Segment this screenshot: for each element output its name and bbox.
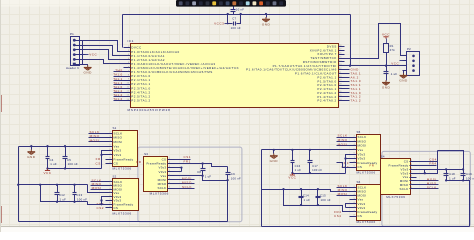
wire: [86, 65, 88, 66]
svg-text:100 nF: 100 nF: [321, 198, 331, 202]
wire: [345, 65, 407, 67]
ground: [262, 17, 270, 22]
wire: [417, 151, 438, 174]
svg-text:MLX75306: MLX75306: [357, 220, 376, 224]
junction: [273, 149, 275, 151]
svg-text:FR4: FR4: [429, 161, 436, 165]
wire: [424, 170, 426, 174]
svg-text:GND: GND: [399, 79, 408, 83]
capacitor C8: [386, 71, 388, 73]
svg-text:MLX75306: MLX75306: [113, 166, 132, 170]
svg-text:47k: 47k: [390, 48, 396, 52]
svg-text:VCC: VCC: [391, 62, 399, 66]
wire: [403, 71, 405, 74]
ground: [84, 65, 92, 70]
svg-text:C18: C18: [449, 172, 455, 176]
net labels S3: [175, 179, 195, 181]
wire: [284, 190, 350, 212]
junction: [201, 162, 203, 164]
svg-text:Header 6: Header 6: [66, 66, 79, 70]
wire: [175, 163, 203, 165]
svg-text:C7: C7: [232, 16, 236, 20]
svg-text:MOSI: MOSI: [338, 142, 348, 146]
connector P1 pins: [73, 39, 76, 42]
svg-text:MLX75306: MLX75306: [386, 195, 405, 199]
svg-text:1 uF: 1 uF: [295, 168, 302, 172]
wire: [417, 161, 438, 163]
wire: [175, 159, 191, 161]
wire: [337, 163, 350, 168]
wire: [228, 15, 233, 24]
wire: [88, 185, 106, 193]
wire: [345, 24, 407, 59]
svg-text:MOSI: MOSI: [92, 186, 102, 190]
wire: [86, 41, 124, 52]
svg-text:MOSI: MOSI: [90, 139, 100, 143]
wire: [86, 60, 124, 64]
resistor R1: [384, 44, 389, 53]
svg-text:S5: S5: [357, 130, 361, 134]
toolbar overlay: [176, 0, 286, 7]
wire: [262, 190, 350, 192]
wire: [88, 202, 106, 205]
wire: [266, 15, 268, 18]
wire: [102, 154, 106, 156]
junction: [385, 65, 387, 67]
svg-text:CS: CS: [114, 206, 119, 210]
wire: [350, 15, 352, 66]
IC S5 (MLX75306): [357, 135, 381, 171]
svg-text:CS: CS: [358, 165, 363, 169]
IC S2 (MLX75306): [113, 179, 139, 211]
capacitor C7: [233, 22, 235, 26]
svg-text:MSP430G2553IPW28: MSP430G2553IPW28: [128, 108, 171, 112]
connector P1 body: [71, 37, 80, 66]
svg-text:P2.5/TA1.2: P2.5/TA1.2: [131, 98, 150, 102]
wire: [19, 146, 106, 148]
junction: [265, 13, 267, 15]
svg-text:1 uF: 1 uF: [304, 198, 311, 202]
svg-text:SCLK: SCLK: [400, 187, 409, 191]
svg-text:IC1: IC1: [128, 39, 134, 43]
svg-text:VCC: VCC: [288, 176, 296, 180]
junction: [445, 168, 447, 170]
wire: [417, 165, 437, 167]
net labels MCU left: [114, 71, 124, 73]
capacitor C9: [227, 167, 229, 173]
wire: [273, 150, 275, 154]
svg-text:P1: P1: [70, 32, 74, 36]
svg-text:S3: S3: [144, 152, 148, 156]
svg-text:P2: P2: [407, 47, 411, 51]
wire: [386, 76, 388, 81]
wire: [293, 173, 346, 175]
MCU left pins: [124, 47, 131, 49]
wire: [18, 147, 20, 222]
svg-text:100 nF: 100 nF: [77, 197, 87, 201]
svg-text:S2: S2: [113, 174, 117, 178]
svg-text:VCC3: VCC3: [214, 21, 224, 25]
capacitor C14: [301, 190, 303, 197]
capacitor C19: [463, 170, 465, 175]
svg-text:VCC: VCC: [89, 53, 97, 57]
connector P2 body: [407, 52, 420, 76]
svg-text:MOSI: MOSI: [338, 192, 348, 196]
svg-text:GND: GND: [382, 86, 391, 90]
junction: [100, 154, 102, 156]
junction: [282, 188, 284, 190]
junction: [344, 157, 346, 159]
wire: [122, 15, 124, 48]
svg-text:VCC: VCC: [43, 171, 51, 175]
svg-text:S4: S4: [381, 155, 385, 159]
wire: [346, 207, 350, 209]
junction: [291, 149, 293, 151]
junction: [445, 179, 447, 181]
svg-text:C19: C19: [466, 172, 472, 176]
svg-text:1 uF: 1 uF: [60, 197, 67, 201]
wire: [447, 181, 470, 227]
svg-text:MLX75306: MLX75306: [150, 192, 169, 196]
wire: [203, 164, 228, 167]
svg-text:S1: S1: [113, 126, 117, 130]
wire: [386, 53, 388, 71]
ground: [382, 80, 390, 85]
wire: [19, 184, 88, 186]
capacitor C15: [317, 190, 319, 197]
svg-text:P2.4/TA0.2: P2.4/TA0.2: [317, 99, 336, 103]
svg-text:CS4: CS4: [334, 214, 342, 218]
wire: [262, 226, 470, 228]
svg-text:FR: FR: [136, 160, 141, 164]
wire: [261, 150, 263, 227]
wire: [346, 155, 350, 174]
svg-text:CS2: CS2: [97, 206, 105, 210]
junction: [349, 65, 351, 67]
svg-text:C8: C8: [197, 170, 201, 174]
wire: [346, 158, 350, 160]
wire: [48, 168, 102, 170]
svg-text:S6: S6: [357, 180, 361, 184]
junction: [240, 13, 242, 15]
svg-text:SCLK: SCLK: [427, 185, 437, 189]
capacitor C8: [202, 164, 204, 169]
wire: [237, 15, 241, 24]
capacitor C18: [446, 170, 448, 175]
ground: [400, 73, 408, 78]
ground: [270, 154, 278, 159]
junction: [17, 184, 19, 186]
svg-text:CS: CS: [114, 162, 119, 166]
net labels S4: [417, 180, 439, 182]
junction: [226, 179, 228, 181]
svg-text:C13: C13: [77, 193, 83, 197]
svg-text:100 nF: 100 nF: [231, 176, 241, 180]
wire: [123, 14, 351, 16]
svg-text:GND: GND: [270, 159, 279, 163]
svg-text:C12: C12: [59, 193, 65, 197]
net labels MCU right: [345, 69, 350, 71]
wire: [86, 50, 124, 60]
power port VCC: [385, 37, 387, 39]
wire: [417, 169, 464, 171]
connector P2 pins: [412, 55, 415, 58]
wire: [86, 46, 124, 56]
ground: [28, 150, 36, 155]
junction: [46, 145, 48, 147]
junction: [46, 167, 48, 169]
svg-text:TA1.2: TA1.2: [351, 99, 362, 103]
junction: [201, 175, 203, 177]
group box right: [382, 151, 470, 226]
junction: [30, 145, 32, 147]
wire: [203, 176, 228, 181]
power port VCC: [47, 169, 49, 171]
capacitor C16: [292, 150, 294, 161]
svg-text:TA1.2: TA1.2: [113, 97, 122, 101]
op-amp U1 body (MCU IC1): [131, 44, 339, 108]
junction: [56, 201, 58, 203]
capacitor C6: [233, 7, 235, 10]
wire: [262, 149, 350, 151]
capacitor C12: [57, 185, 59, 193]
svg-text:FR1: FR1: [184, 159, 191, 163]
IC S1 (MLX75306): [113, 131, 138, 167]
wire: [41, 185, 88, 202]
junction: [100, 199, 102, 201]
svg-text:10 nF: 10 nF: [236, 7, 244, 11]
svg-text:VCC: VCC: [382, 32, 390, 36]
svg-text:GND: GND: [262, 22, 271, 26]
capacitor C5: [65, 147, 67, 157]
net labels SCLK MISO MOSI: [89, 133, 106, 135]
power port VCC: [291, 173, 293, 175]
svg-text:100 nF: 100 nF: [68, 162, 78, 166]
svg-text:100 nF: 100 nF: [312, 168, 322, 172]
group box left: [138, 147, 242, 222]
svg-text:FR: FR: [369, 164, 374, 168]
svg-text:C15: C15: [320, 193, 326, 197]
svg-text:SCLK: SCLK: [157, 186, 166, 190]
svg-text:SCLK: SCLK: [182, 185, 192, 189]
junction: [300, 204, 302, 206]
wire: [438, 151, 464, 170]
IC S4 (MLX75306): [381, 159, 411, 195]
wire: [346, 204, 350, 208]
wire: [102, 151, 106, 169]
capacitor C4: [47, 147, 49, 157]
wire: [31, 147, 33, 150]
IC S3 (MLX75306): [144, 157, 168, 192]
svg-text:GND: GND: [84, 71, 93, 75]
svg-text:1 uF: 1 uF: [50, 162, 57, 166]
wire: [102, 197, 106, 205]
svg-text:CS: CS: [358, 214, 363, 218]
wire: [227, 181, 229, 222]
svg-text:GND: GND: [27, 155, 36, 159]
capacitor C13: [74, 185, 76, 193]
capacitor C17: [309, 150, 311, 161]
MCU right pins: [339, 46, 345, 48]
svg-text:C9: C9: [231, 172, 235, 176]
wire: [19, 221, 228, 223]
svg-text:MLX75306: MLX75306: [113, 211, 132, 215]
junction: [227, 13, 229, 15]
svg-text:MLX75306: MLX75306: [357, 170, 376, 174]
svg-text:1 uF: 1 uF: [391, 72, 398, 76]
junction: [424, 172, 426, 174]
svg-text:C14: C14: [303, 193, 309, 197]
net labels SCLK MISO MOSI right: [337, 137, 350, 139]
junction: [180, 166, 182, 168]
svg-text:100 nF: 100 nF: [231, 26, 241, 30]
power port VCC: [86, 54, 89, 56]
junction: [291, 172, 293, 174]
wire: [175, 167, 182, 169]
svg-text:1 uF: 1 uF: [205, 174, 212, 178]
wire: [175, 175, 203, 177]
wire: [83, 40, 86, 42]
IC S6 (MLX75306): [357, 185, 381, 221]
